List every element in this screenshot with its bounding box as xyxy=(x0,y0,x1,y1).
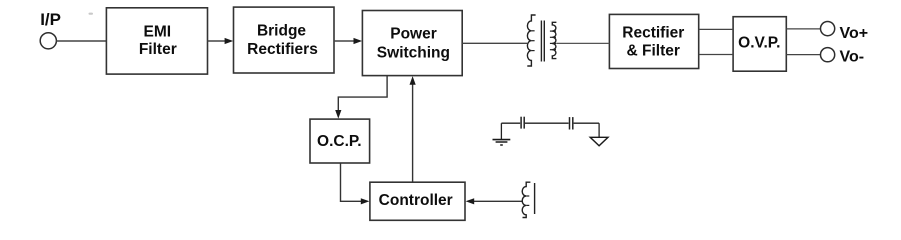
svg-text:Vo-: Vo- xyxy=(840,49,865,66)
svg-text:Bridge: Bridge xyxy=(257,23,306,40)
svg-text:Rectifiers: Rectifiers xyxy=(247,41,318,58)
svg-text:I/P: I/P xyxy=(40,10,61,29)
svg-text:Power: Power xyxy=(390,25,437,42)
svg-text:Switching: Switching xyxy=(377,45,450,62)
svg-text:Filter: Filter xyxy=(139,41,177,58)
svg-text:EMI: EMI xyxy=(144,23,172,40)
svg-text:Rectifier: Rectifier xyxy=(622,25,684,42)
svg-text:Controller: Controller xyxy=(379,192,453,209)
svg-text:& Filter: & Filter xyxy=(626,43,679,60)
svg-text:Vo+: Vo+ xyxy=(840,25,869,42)
svg-text:O.V.P.: O.V.P. xyxy=(738,35,780,52)
svg-text:O.C.P.: O.C.P. xyxy=(317,133,362,150)
